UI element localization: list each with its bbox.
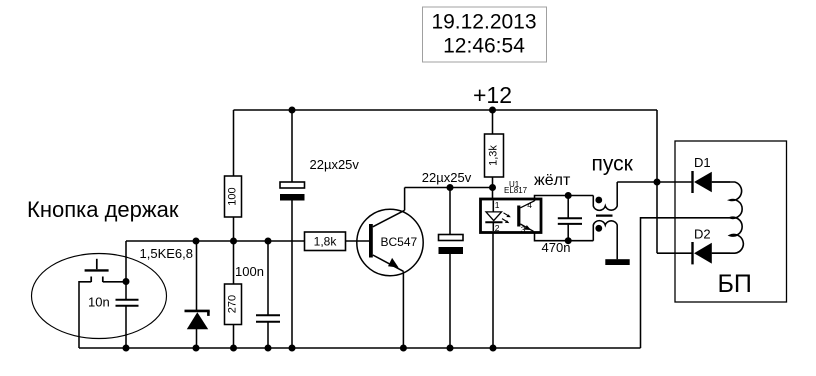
svg-text:470n: 470n: [542, 240, 571, 255]
junction: ground at C3: [265, 345, 272, 352]
resistor R4 1,8k: [305, 232, 370, 251]
svg-text:22µx25v: 22µx25v: [310, 157, 360, 172]
svg-text:Кнопка держак: Кнопка держак: [27, 197, 179, 222]
svg-text:1,3k: 1,3k: [488, 145, 500, 166]
opto phototransistor: [517, 206, 520, 227]
svg-text:BC547: BC547: [381, 235, 418, 249]
junction: pin4 wire at C5: [565, 192, 572, 199]
svg-text:19.12.2013: 19.12.2013: [431, 11, 536, 34]
junction: ground at C1: [289, 345, 296, 352]
wire: transformer to D1 node: [617, 181, 657, 183]
pulse transformer T1 primary winding: [593, 182, 617, 210]
wire: opto pin3 node: [535, 232, 594, 241]
capacitor C2 10n: [88, 282, 139, 349]
junction: top rail at R3: [489, 107, 496, 114]
junction: top rail at C1: [289, 107, 296, 114]
wire: button right contact to node: [103, 281, 126, 283]
wire: D1 node down to D2: [656, 182, 658, 253]
svg-text:2: 2: [495, 223, 500, 233]
optocoupler U1 EL817: [481, 180, 542, 235]
resistor R3 1,3k: [485, 110, 504, 199]
svg-text:270: 270: [227, 295, 239, 313]
wire: emitter down: [402, 271, 404, 348]
wire: R1 to mid rail: [233, 217, 235, 241]
transistor Q1 BC547: [357, 209, 423, 275]
junction: ground at TVS: [193, 345, 200, 352]
TVS diode D3 1,5KE6,8: [185, 241, 210, 348]
pulse transformer T1 core: [596, 215, 613, 217]
wire: top rail down to R1: [233, 110, 235, 176]
junction: ground at R2: [230, 345, 237, 352]
wire: opto pin4 node (жёлт): [535, 196, 594, 202]
svg-text:жёлт: жёлт: [534, 172, 571, 189]
junction: button node: [123, 278, 130, 285]
svg-text:D2: D2: [694, 227, 711, 242]
wire: mid rail: [126, 240, 305, 242]
svg-text:EL817: EL817: [504, 186, 528, 195]
svg-text:100n: 100n: [235, 264, 264, 279]
wire: collector up: [404, 188, 406, 211]
junction: mid rail at TVS: [193, 238, 200, 245]
wire: button left contact to ground rail: [79, 282, 91, 348]
junction: collector rail at C4: [447, 184, 454, 191]
transformer polarity dot bottom: [595, 225, 602, 232]
wire: opto pin2 to ground rail: [492, 233, 494, 348]
svg-text:пуск: пуск: [592, 153, 634, 176]
wire: ground bottom rail: [79, 347, 641, 349]
wire: collector rail: [405, 187, 493, 189]
junction: pin3 wire at C5: [565, 237, 572, 244]
junction: collector rail at opto pin1: [489, 184, 496, 191]
capacitor C1 22µx25v electrolytic: [280, 110, 359, 348]
box БП (power supply): [675, 141, 787, 302]
junction: D1 node: [654, 179, 661, 186]
PSU transformer primary coil: [712, 182, 744, 253]
svg-text:12:46:54: 12:46:54: [443, 35, 525, 58]
capacitor C5 470n: [542, 196, 583, 256]
pulse transformer T1 secondary winding: [593, 221, 617, 260]
svg-text:БП: БП: [718, 270, 752, 298]
junction: ground at button branch: [123, 345, 130, 352]
svg-text:1,5KE6,8: 1,5KE6,8: [140, 246, 194, 261]
transformer polarity dot top: [595, 197, 602, 204]
wire: coil center tap to ground rail: [641, 218, 730, 348]
svg-text:4: 4: [527, 200, 532, 210]
capacitor C3 100n: [235, 241, 280, 348]
junction: ground at emitter: [400, 345, 407, 352]
svg-text:22µx25v: 22µx25v: [422, 170, 472, 185]
resistor R1 100: [225, 176, 242, 217]
junction: mid rail at C3: [265, 238, 272, 245]
svg-text:10n: 10n: [88, 295, 110, 310]
capacitor C4 22µx25v electrolytic: [422, 170, 472, 348]
svg-text:1,8k: 1,8k: [314, 235, 338, 249]
wire: +12 top rail: [234, 109, 658, 111]
timestamp box: [423, 7, 547, 62]
wire: +12 rail down right side: [656, 110, 658, 182]
ground symbol: [605, 259, 629, 265]
junction: mid rail at R1/R2: [230, 238, 237, 245]
wire: mid rail down to button node: [125, 241, 127, 282]
junction: ground at C4: [447, 345, 454, 352]
opto LED: [492, 201, 494, 212]
svg-text:+12: +12: [473, 82, 512, 108]
svg-text:1: 1: [495, 200, 500, 210]
diode D1: [657, 171, 730, 193]
junction: ground at opto pin2: [490, 345, 497, 352]
resistor R2 270: [225, 241, 242, 348]
opto light arrows: [504, 213, 510, 216]
svg-text:D1: D1: [694, 155, 711, 170]
svg-text:100: 100: [227, 187, 239, 205]
diode D2: [657, 242, 730, 264]
annotation ellipse around button: [32, 254, 167, 339]
pushbutton SB1 (держак): [85, 259, 109, 282]
